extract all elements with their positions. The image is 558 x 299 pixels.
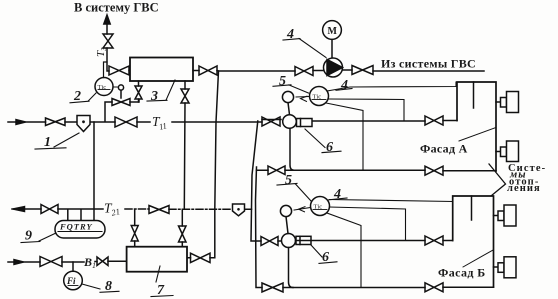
sensor line A to facade (327, 82, 456, 91)
wire T11 supply line left (8, 121, 262, 123)
valve on B1 right (97, 257, 108, 266)
svg-text:FQTRY: FQTRY (59, 222, 93, 232)
label Iz sistemy GVS (381, 57, 476, 71)
T21 outlet arrow (13, 207, 25, 212)
radiator A1 (496, 101, 501, 103)
chevron to heating systems (489, 164, 506, 196)
radiator A2 (496, 151, 501, 153)
wire heater3 left bottom to control valve (138, 81, 140, 102)
valve before mixing valve A (262, 117, 280, 126)
valve right of heater 3 (199, 66, 217, 75)
pump 4 with motor (331, 40, 333, 59)
svg-text:Из системы ГВС: Из системы ГВС (381, 57, 476, 71)
wire heater3 right bottom riser to T21 (183, 81, 186, 209)
label Fasad A (420, 142, 468, 156)
wire return line facade A (257, 169, 497, 172)
impulse TC-A to actuator A (296, 96, 310, 99)
valve on A return right (425, 166, 443, 175)
sensor line A to return pipe (326, 103, 363, 170)
valve on B return right (425, 283, 443, 292)
impulse TiC-B to actuator B (294, 208, 311, 211)
valve before mixing valve B (261, 237, 278, 246)
svg-text:9: 9 (25, 229, 32, 244)
B1 inlet arrow (14, 260, 24, 265)
facade A building box (457, 82, 496, 171)
valve into heater 3 (109, 66, 129, 75)
valve above heater 7 right (179, 226, 187, 242)
label heating systems (507, 163, 546, 194)
elevator 1 (pentagon with dot) (77, 116, 90, 132)
sensor line B to supply pipe (330, 207, 406, 241)
label B1 (83, 255, 96, 270)
svg-text:В: В (83, 255, 92, 269)
wire pump suction line (193, 70, 484, 71)
wire B supply to facade B (296, 240, 453, 242)
sensor line B to return pipe (327, 213, 361, 288)
wire T21 return line (12, 208, 103, 210)
sensor line A to supply pipe (329, 99, 405, 121)
flow meter 8 (72, 262, 74, 271)
strainer on T21 (pentagon with dot) (233, 204, 245, 216)
svg-text:ления: ления (507, 183, 541, 194)
wire branch to control valve (105, 100, 139, 122)
wire riser to heater 7 right valve (181, 209, 183, 246)
valve under heater 3 left (135, 86, 142, 99)
handwritten figure labels (25, 27, 348, 298)
svg-text:1: 1 (92, 261, 96, 270)
valve before facade B (425, 236, 443, 245)
valve before pump (295, 67, 313, 76)
valve on T21 left (41, 205, 58, 214)
heat meter 9 capsule (68, 122, 94, 221)
svg-text:Fi: Fi (66, 276, 76, 286)
controller TC circle 2 (95, 78, 113, 96)
svg-text:3: 3 (150, 89, 158, 104)
label Fasad B (438, 266, 486, 280)
svg-text:5: 5 (279, 74, 286, 89)
sensor line from pipe to TC (104, 62, 108, 78)
mixing valve 6 section A (283, 115, 297, 129)
wire T21 to heater 7 left valve (134, 209, 136, 246)
valve on A return left (268, 166, 285, 175)
svg-text:11: 11 (158, 120, 168, 131)
arrow up to DHW system (104, 15, 110, 24)
controller TiC 5 section A (310, 87, 329, 106)
link TC to actuator (113, 86, 118, 88)
valve on T11 inlet (46, 118, 66, 126)
node T11 inlet arrow (16, 120, 26, 125)
wire B-return riser to T21 and bottom (256, 167, 494, 288)
facade B building box (453, 196, 494, 287)
mixing valve 6 section B (282, 234, 296, 248)
wire riser from pump line to T21 to heater7 (187, 71, 219, 258)
vertical valve on DHW outlet (103, 34, 113, 48)
valve right of heater 7 (191, 253, 211, 262)
heat exchanger 3 (130, 58, 193, 82)
svg-text:М: М (328, 26, 338, 37)
svg-text:Фасад Б: Фасад Б (438, 266, 486, 280)
radiator B1 (494, 215, 499, 217)
valve on T21 mid (149, 206, 169, 214)
wire DHW outlet vertical (107, 24, 130, 71)
big valve on B1 (40, 257, 62, 267)
controller TiC 5 section B (311, 197, 330, 216)
svg-text:4: 4 (340, 78, 348, 93)
label T11 (152, 114, 168, 132)
label underlines and leader lines (21, 39, 352, 297)
label T21 (104, 201, 121, 218)
valve after pump (352, 66, 373, 75)
svg-text:21: 21 (110, 206, 120, 218)
valve on B return (262, 283, 283, 292)
valve before facade A (425, 116, 443, 125)
wire A-supply through mixing valve to facade A (262, 120, 457, 122)
svg-text:1: 1 (44, 135, 51, 150)
svg-text:В систему ГВС: В систему ГВС (74, 0, 159, 14)
control valve 2-line bowtie (112, 99, 130, 106)
heat exchanger 7 (127, 247, 187, 272)
valve under heater 3 right (181, 89, 189, 103)
valve above heater 7 left (131, 226, 138, 242)
svg-text:5: 5 (285, 173, 292, 188)
label T3 rotated (95, 47, 108, 57)
label V sistemu GVS (74, 0, 159, 14)
wire B1 cold water line (8, 260, 127, 263)
wire B-supply riser from T11 (251, 121, 282, 241)
sensor line B to facade (329, 200, 453, 202)
svg-text:Фасад А: Фасад А (420, 142, 468, 156)
radiator B2 (494, 266, 499, 268)
valve on T11 before label (115, 117, 137, 127)
actuator stem and head circle (120, 90, 122, 98)
